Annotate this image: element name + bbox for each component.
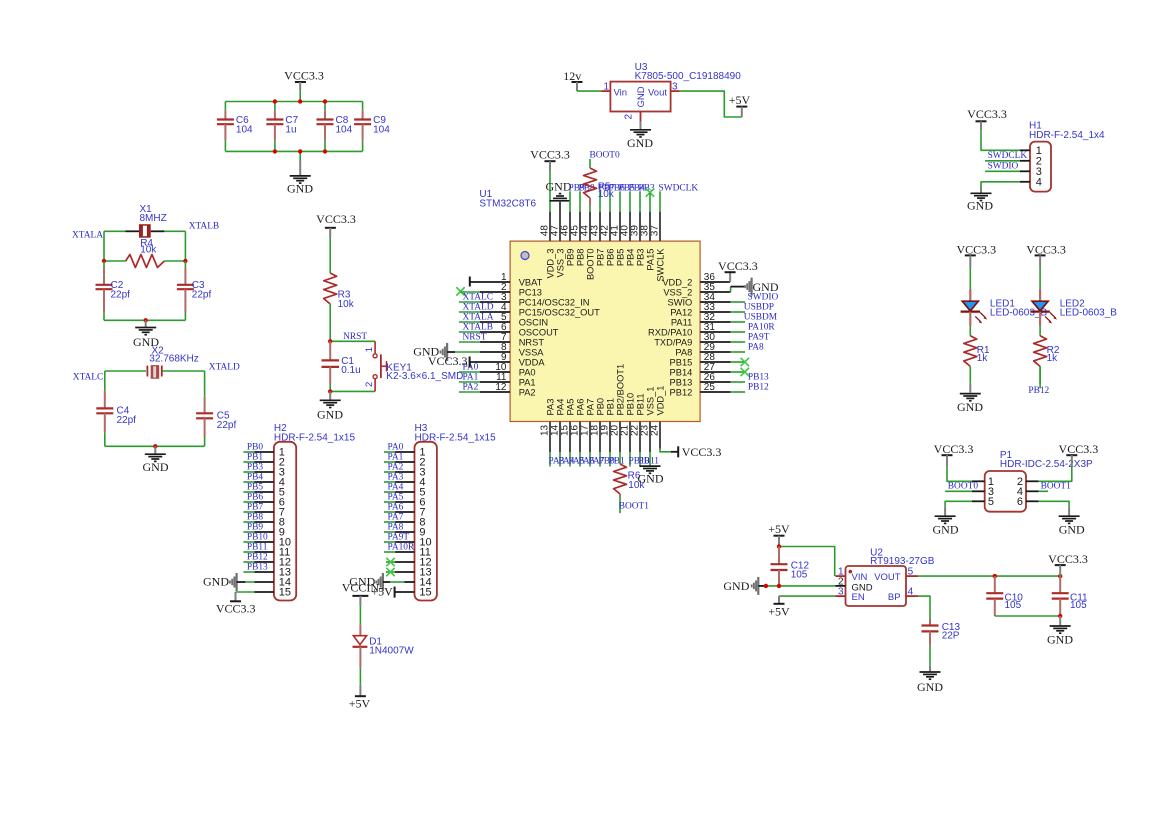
pin 45 net label PB8	[579, 183, 595, 241]
power port VCC3.3 (P1 right)	[1059, 442, 1099, 467]
pin 46 net label PB9	[569, 183, 585, 241]
svg-text:K2-3.6×6.1_SMD: K2-3.6×6.1_SMD	[386, 371, 463, 382]
svg-text:2: 2	[624, 114, 635, 120]
pin 10 net label PA0	[459, 362, 510, 372]
svg-text:HDR-IDC-2.54-2X3P: HDR-IDC-2.54-2X3P	[1000, 459, 1093, 470]
svg-text:PB1: PB1	[606, 398, 616, 416]
power port VCC3.3 (cap bank)	[284, 69, 324, 91]
pin 11 net label PA1	[459, 372, 510, 382]
pin 16 net label PA6	[579, 422, 595, 467]
wire GND rail	[225, 151, 362, 160]
svg-text:XTALA: XTALA	[72, 231, 103, 241]
svg-text:VSS_1: VSS_1	[646, 387, 656, 416]
H2 pin 6 net label PB6	[243, 492, 274, 502]
svg-text:22pf: 22pf	[111, 290, 131, 301]
svg-text:PC14/OSC32_IN: PC14/OSC32_IN	[519, 297, 590, 307]
wire P1 pin5 to GND	[945, 501, 985, 507]
svg-text:GND: GND	[143, 460, 169, 474]
svg-text:XTALB: XTALB	[463, 322, 494, 332]
svg-text:PB13: PB13	[247, 562, 268, 572]
pin 27 no-connect	[700, 368, 749, 376]
svg-text:USBDM: USBDM	[744, 312, 778, 322]
svg-text:VCC3.3: VCC3.3	[934, 442, 974, 456]
svg-text:PB2/BOOT1: PB2/BOOT1	[616, 364, 626, 416]
svg-text:PA1: PA1	[388, 452, 404, 462]
ground (C11)	[1047, 616, 1073, 647]
svg-text:VCC3.3: VCC3.3	[967, 107, 1007, 121]
svg-text:PA1: PA1	[519, 377, 536, 387]
svg-text:4: 4	[1036, 177, 1042, 189]
pin 1 VBAT terminal	[470, 277, 510, 287]
svg-text:1: 1	[364, 347, 375, 352]
junction dot X2 gnd	[153, 444, 157, 448]
wire U2 GND	[768, 585, 835, 587]
crystal X2	[105, 346, 205, 379]
svg-text:12v: 12v	[563, 69, 581, 83]
H3 pin 10 net label PA9T	[384, 532, 415, 542]
H3 pin 9 net label PA8	[384, 522, 415, 532]
svg-text:PA2: PA2	[519, 387, 536, 397]
svg-text:VBAT: VBAT	[519, 277, 543, 287]
pin 25 net label PB12	[700, 382, 769, 392]
pin 35 VSS_2 to GND arrow	[700, 278, 779, 296]
svg-text:3: 3	[672, 82, 678, 93]
junction dots U2 GND	[764, 584, 782, 588]
svg-text:OSCOUT: OSCOUT	[519, 327, 559, 337]
junction dot +5V C12	[777, 544, 781, 548]
H2 pin 11 net label PB11	[243, 542, 274, 552]
pin 22 net label PB11	[639, 422, 660, 467]
svg-text:15: 15	[419, 587, 431, 599]
H3 pin 1 net label PA0	[384, 442, 415, 452]
svg-text:PA4: PA4	[388, 482, 404, 492]
wire +5V to U2 VIN	[779, 547, 835, 577]
H2 pin 13 net label PB13	[243, 562, 274, 572]
ground arrow (U2 GND)	[723, 577, 768, 595]
svg-text:VSS_2: VSS_2	[663, 287, 692, 297]
svg-text:USBDP: USBDP	[744, 302, 774, 312]
svg-text:104: 104	[336, 125, 353, 136]
svg-text:10k: 10k	[338, 299, 355, 310]
ground (KEY1)	[317, 391, 343, 421]
pin 4 net label XTALD	[459, 302, 510, 312]
H3 pin 6 net label PA5	[384, 492, 415, 502]
svg-text:PB12: PB12	[748, 382, 769, 392]
svg-text:+5V: +5V	[349, 697, 371, 711]
svg-text:PA12: PA12	[670, 307, 692, 317]
svg-text:VCC3.3: VCC3.3	[428, 354, 468, 368]
svg-text:0.1u: 0.1u	[341, 365, 360, 376]
pin 41 net label PB5	[619, 183, 635, 241]
junction dot C1 bottom	[328, 389, 332, 393]
svg-text:8MHZ: 8MHZ	[140, 213, 167, 224]
svg-text:BOOT1: BOOT1	[619, 502, 650, 512]
H2 pin 9 net label PB9	[243, 522, 274, 532]
svg-text:6: 6	[1017, 496, 1023, 508]
H3 pin 7 net label PA6	[384, 502, 415, 512]
svg-text:NRST: NRST	[463, 332, 487, 342]
pin 12 net label PA2	[459, 382, 510, 392]
pin 24 VDD_1 to VCC3.3 port	[660, 422, 721, 459]
svg-text:GND: GND	[627, 136, 653, 150]
power port +5V (U3 out)	[729, 93, 751, 117]
ground (LED1)	[957, 384, 983, 414]
pin 26 net label PB13	[700, 372, 769, 382]
svg-text:PB3: PB3	[636, 249, 646, 267]
svg-text:5: 5	[988, 496, 994, 508]
net label SWDCLK (H1)	[985, 151, 1030, 161]
H3 pin 14 ground arrow	[349, 573, 414, 591]
wire C10 C11 bottom	[995, 615, 1060, 617]
pin 28 no-connect	[700, 358, 749, 366]
svg-text:GND: GND	[287, 181, 313, 195]
svg-text:PB11: PB11	[636, 393, 646, 415]
H3 pin 5 net label PA4	[384, 482, 415, 492]
crystal X1	[104, 204, 185, 238]
capacitor C4	[96, 391, 136, 447]
diode D1 1N4007W	[353, 606, 415, 685]
svg-text:15: 15	[279, 587, 291, 599]
svg-text:SWCLK: SWCLK	[656, 248, 666, 282]
svg-text:PA10R: PA10R	[388, 542, 415, 552]
pin 34 net label SWDIO	[700, 292, 778, 302]
resistor R3	[324, 238, 355, 342]
svg-text:PB0: PB0	[596, 398, 606, 416]
pin 38 PA15 no-connect	[646, 188, 654, 241]
resistor R1 1k	[964, 336, 990, 384]
svg-text:PB4: PB4	[626, 249, 636, 267]
capacitor C6	[217, 102, 253, 152]
net label PB12 (LED2)	[1028, 366, 1049, 396]
junction dot NRST	[328, 339, 332, 343]
capacitor C9	[354, 102, 390, 152]
pin 37 SWCLK net label SWDCLK	[659, 183, 699, 241]
ground (cap bank)	[287, 160, 313, 195]
net label SWDIO (H1)	[985, 161, 1030, 171]
resistor R4	[104, 238, 185, 268]
wire P1 pin1	[947, 467, 985, 482]
svg-text:PA0: PA0	[388, 442, 404, 452]
svg-text:K7805-500_C19188490: K7805-500_C19188490	[635, 71, 742, 82]
svg-text:22P: 22P	[942, 631, 960, 642]
pin 19 net label PB1	[609, 422, 625, 467]
svg-text:1: 1	[603, 82, 609, 93]
svg-text:Vin: Vin	[614, 87, 628, 98]
junction dots R4	[102, 259, 188, 263]
connector H2 HDR-F-2.54_1x15	[274, 423, 356, 601]
capacitor C11	[1052, 576, 1088, 616]
svg-text:PA8: PA8	[675, 347, 692, 357]
svg-text:PA8: PA8	[748, 342, 764, 352]
svg-text:PB8: PB8	[576, 249, 586, 267]
svg-text:GND: GND	[636, 86, 647, 107]
svg-text:STM32C8T6: STM32C8T6	[479, 198, 536, 209]
ground (P1 left)	[933, 507, 959, 536]
H3 pin 8 net label PA7	[384, 512, 415, 522]
svg-text:SWDCLK: SWDCLK	[659, 183, 699, 193]
svg-text:+5V: +5V	[729, 93, 751, 107]
pin 3 net label XTALC	[459, 292, 510, 302]
svg-text:PA2: PA2	[463, 382, 479, 392]
svg-text:VCC3.3: VCC3.3	[1059, 442, 1099, 456]
svg-text:BOOT1: BOOT1	[1041, 482, 1072, 492]
H2 pin 7 net label PB7	[243, 502, 274, 512]
junction dots cap bank	[273, 99, 328, 153]
svg-text:GND: GND	[317, 408, 343, 422]
pin 21 net label PB10	[629, 422, 650, 467]
wire KEY1 bottom	[330, 390, 375, 392]
svg-text:VCC3.3: VCC3.3	[718, 259, 758, 273]
junction dot X1 gnd	[144, 318, 148, 322]
svg-text:XTALC: XTALC	[73, 373, 104, 383]
regulator U3 K7805-500	[602, 62, 742, 121]
svg-text:HDR-F-2.54_1x15: HDR-F-2.54_1x15	[415, 432, 497, 443]
power port +5V (U2 VIN)	[768, 522, 790, 547]
svg-text:PA11: PA11	[671, 317, 692, 327]
wire X2 bottom	[105, 445, 205, 447]
H2 pin 5 net label PB5	[243, 482, 274, 492]
capacitor C10	[986, 576, 1023, 616]
svg-text:PA10R: PA10R	[748, 322, 775, 332]
svg-text:PA7: PA7	[388, 512, 404, 522]
wire 12v to U3	[577, 90, 602, 92]
wire H1 pin4 to GND	[981, 182, 1030, 187]
H2 pin 12 net label PB12	[243, 552, 274, 562]
svg-text:2: 2	[364, 382, 375, 387]
svg-text:PB4: PB4	[247, 472, 263, 482]
power port VCC3.3 (NRST pullup)	[316, 212, 356, 238]
svg-text:RT9193-27GB: RT9193-27GB	[870, 556, 935, 567]
MCU pin names and numbers	[495, 225, 715, 436]
svg-text:VCC3.3: VCC3.3	[1048, 552, 1088, 566]
svg-text:BOOT0: BOOT0	[590, 151, 621, 161]
wire U3 out to +5V	[680, 91, 742, 117]
H3 pin 15 +5V port	[371, 584, 414, 598]
pin 14 net label PA4	[559, 422, 575, 467]
pushbutton KEY1	[364, 341, 464, 391]
H2 pin 4 net label PB4	[243, 472, 274, 482]
svg-text:+5V: +5V	[768, 522, 790, 536]
svg-text:XTALD: XTALD	[463, 302, 494, 312]
svg-text:GND: GND	[957, 400, 983, 414]
svg-text:VDD_2: VDD_2	[662, 277, 692, 287]
svg-text:PB6: PB6	[247, 492, 263, 502]
svg-text:VCC3.3: VCC3.3	[956, 243, 996, 257]
svg-text:PB15: PB15	[670, 357, 693, 367]
ground (X1)	[133, 320, 159, 349]
svg-text:EN: EN	[852, 592, 865, 603]
svg-text:GND: GND	[917, 680, 943, 694]
pin 32 net label USBDM	[700, 312, 778, 322]
net label BOOT1 (P1)	[1026, 482, 1071, 492]
svg-text:XTALC: XTALC	[463, 292, 494, 302]
svg-text:VCC3.3: VCC3.3	[284, 69, 324, 83]
svg-text:PC13: PC13	[519, 287, 542, 297]
svg-text:105: 105	[791, 569, 808, 580]
ground (H1)	[967, 187, 993, 213]
pin 39 net label PB3	[639, 183, 655, 241]
svg-text:PA6: PA6	[576, 399, 586, 416]
svg-text:1N4007W: 1N4007W	[369, 646, 414, 657]
H2 pin 8 net label PB8	[243, 512, 274, 522]
svg-text:22pf: 22pf	[117, 415, 137, 426]
pin 31 net label PA10R	[700, 322, 775, 332]
svg-text:BP: BP	[888, 592, 901, 603]
power port 12v	[563, 69, 582, 91]
svg-text:VDDA: VDDA	[519, 357, 546, 367]
svg-text:BOOT0: BOOT0	[586, 249, 596, 281]
pin 8 VSSA ground arrow	[413, 343, 510, 361]
svg-text:PC15/OSC32_OUT: PC15/OSC32_OUT	[519, 307, 600, 317]
svg-text:PA6: PA6	[388, 502, 404, 512]
H3 pin 4 net label PA3	[384, 472, 415, 482]
ground (P1 right)	[1059, 507, 1085, 536]
svg-text:1u: 1u	[285, 125, 296, 136]
pin 36 VDD_2 to VCC3.3	[700, 259, 758, 282]
H2 pin 14 ground arrow	[203, 573, 274, 591]
svg-text:PB13: PB13	[748, 372, 769, 382]
pin 15 net label PA5	[569, 422, 585, 467]
svg-text:PB0: PB0	[247, 442, 263, 452]
power port +5V (U2 EN)	[768, 596, 790, 618]
svg-text:PB7: PB7	[596, 249, 606, 267]
svg-text:105: 105	[1070, 600, 1087, 611]
pin 29 net label PA8	[700, 342, 764, 352]
resistor R2 1k	[1034, 336, 1060, 384]
svg-text:SWDIO: SWDIO	[748, 292, 779, 302]
power port VCC3.3 (H1)	[967, 107, 1007, 131]
svg-text:VOUT: VOUT	[874, 572, 901, 583]
svg-text:32.768KHz: 32.768KHz	[149, 354, 198, 365]
svg-text:PB8: PB8	[247, 512, 263, 522]
ground (C13)	[917, 666, 943, 694]
connector H1 HDR-F-2.54_1x4	[1029, 121, 1105, 192]
svg-text:PB13: PB13	[670, 377, 693, 387]
pin 30 net label PA9T	[700, 332, 770, 342]
svg-text:PA2: PA2	[388, 462, 404, 472]
svg-text:GND: GND	[933, 523, 959, 537]
pin 18 net label PB0	[599, 422, 615, 467]
svg-text:NRST: NRST	[343, 332, 367, 342]
H2 pin 2 net label PB1	[243, 452, 274, 462]
junction dots VOUT rail	[993, 574, 1063, 578]
LED LED2 LED-0603_B	[1030, 289, 1117, 336]
svg-text:HDR-F-2.54_1x4: HDR-F-2.54_1x4	[1029, 130, 1105, 141]
pin 9 VDDA VCC3.3 port	[428, 354, 510, 368]
svg-text:VDD_1: VDD_1	[656, 386, 666, 416]
svg-text:XTALA: XTALA	[463, 312, 494, 322]
net label BOOT0 (P1)	[945, 482, 985, 492]
wire P1 pin6 to GND	[1026, 501, 1069, 507]
pin 42 net label PB6	[609, 183, 625, 241]
svg-text:24: 24	[649, 424, 660, 436]
svg-text:PA0: PA0	[519, 367, 536, 377]
wire X2 left	[104, 371, 106, 391]
wire EN to +5V	[779, 595, 836, 597]
svg-text:VCC3.3: VCC3.3	[1026, 243, 1066, 257]
svg-text:PB5: PB5	[616, 249, 626, 267]
wire BP to C13	[918, 596, 930, 619]
svg-text:Vout: Vout	[648, 87, 667, 98]
svg-text:TXD/PA9: TXD/PA9	[654, 337, 692, 347]
pin 5 net label XTALA	[459, 312, 510, 322]
svg-text:VSSA: VSSA	[519, 347, 545, 357]
svg-text:PA9T: PA9T	[748, 332, 770, 342]
wire VCC3.3 rail	[225, 91, 362, 102]
H3 pin 2 net label PA1	[384, 452, 415, 462]
wire H1 pin1	[981, 131, 1030, 151]
svg-text:VCC3.3: VCC3.3	[682, 445, 722, 459]
svg-text:HDR-F-2.54_1x15: HDR-F-2.54_1x15	[274, 432, 356, 443]
svg-text:PB10: PB10	[247, 532, 268, 542]
svg-text:OSCIN: OSCIN	[519, 317, 548, 327]
svg-text:XTALB: XTALB	[189, 222, 220, 232]
svg-text:PA4: PA4	[556, 399, 566, 416]
H3 pin 13 no-connect	[386, 568, 415, 576]
connector H3 HDR-F-2.54_1x15	[415, 423, 497, 601]
svg-text:PB3: PB3	[247, 462, 263, 472]
svg-text:GND: GND	[203, 575, 229, 589]
LED LED1 LED-0603_B	[961, 289, 1048, 336]
svg-text:PA7: PA7	[586, 399, 596, 416]
svg-text:1k: 1k	[977, 353, 989, 364]
svg-text:22pf: 22pf	[192, 290, 212, 301]
resistor R5	[584, 159, 615, 241]
power port VCC3.3 (P1 left)	[934, 442, 974, 467]
svg-text:SWDIO: SWDIO	[988, 161, 1019, 171]
svg-text:104: 104	[236, 125, 253, 136]
svg-text:GND: GND	[967, 199, 993, 213]
svg-text:SWDCLK: SWDCLK	[988, 151, 1028, 161]
pin 48 VDD_3 to VCC3.3	[530, 147, 570, 241]
wire X1 right	[184, 231, 186, 261]
svg-text:LED-0603_B: LED-0603_B	[1060, 308, 1118, 319]
wire VOUT to VCC3.3	[918, 575, 1060, 577]
MCU U1 STM32C8T6 body	[479, 189, 700, 422]
svg-text:PA3: PA3	[388, 472, 404, 482]
pin 47 VSS_3 to GND	[546, 180, 572, 241]
svg-text:PB10: PB10	[626, 393, 636, 416]
capacitor C2	[96, 261, 131, 320]
pin 6 net label XTALB	[459, 322, 510, 332]
power port +5V (D1)	[349, 685, 371, 711]
resistor R6	[614, 422, 646, 514]
svg-text:37: 37	[649, 225, 660, 237]
wire X1 bottom	[104, 319, 185, 321]
connector P1 HDR-IDC-2.54-2X3P	[985, 450, 1093, 512]
pin 17 net label PA7	[589, 422, 605, 467]
svg-text:4: 4	[908, 587, 914, 598]
H3 pin 11 net label PA10R	[384, 542, 415, 552]
capacitor C1	[322, 341, 361, 391]
H2 pin 15 to VCC3.3	[216, 592, 274, 616]
pin 13 net label PA3	[549, 422, 565, 467]
svg-text:PA15: PA15	[646, 249, 656, 271]
capacitor C7	[266, 102, 298, 152]
power port VCC3.3 (LED1)	[956, 243, 996, 290]
power port VCC3.3 (LED2)	[1026, 243, 1066, 290]
svg-text:VDD_3: VDD_3	[546, 249, 556, 279]
junction dot C11 gnd	[1058, 614, 1062, 618]
svg-text:PB9: PB9	[566, 249, 576, 267]
svg-text:+5V: +5V	[768, 605, 790, 619]
pin 7 net label NRST	[459, 332, 510, 342]
svg-text:RXD/PA10: RXD/PA10	[648, 327, 692, 337]
svg-text:VSS_3: VSS_3	[556, 249, 566, 278]
H3 pin 12 no-connect	[386, 558, 415, 566]
svg-text:PB14: PB14	[670, 367, 693, 377]
svg-text:22pf: 22pf	[217, 420, 237, 431]
